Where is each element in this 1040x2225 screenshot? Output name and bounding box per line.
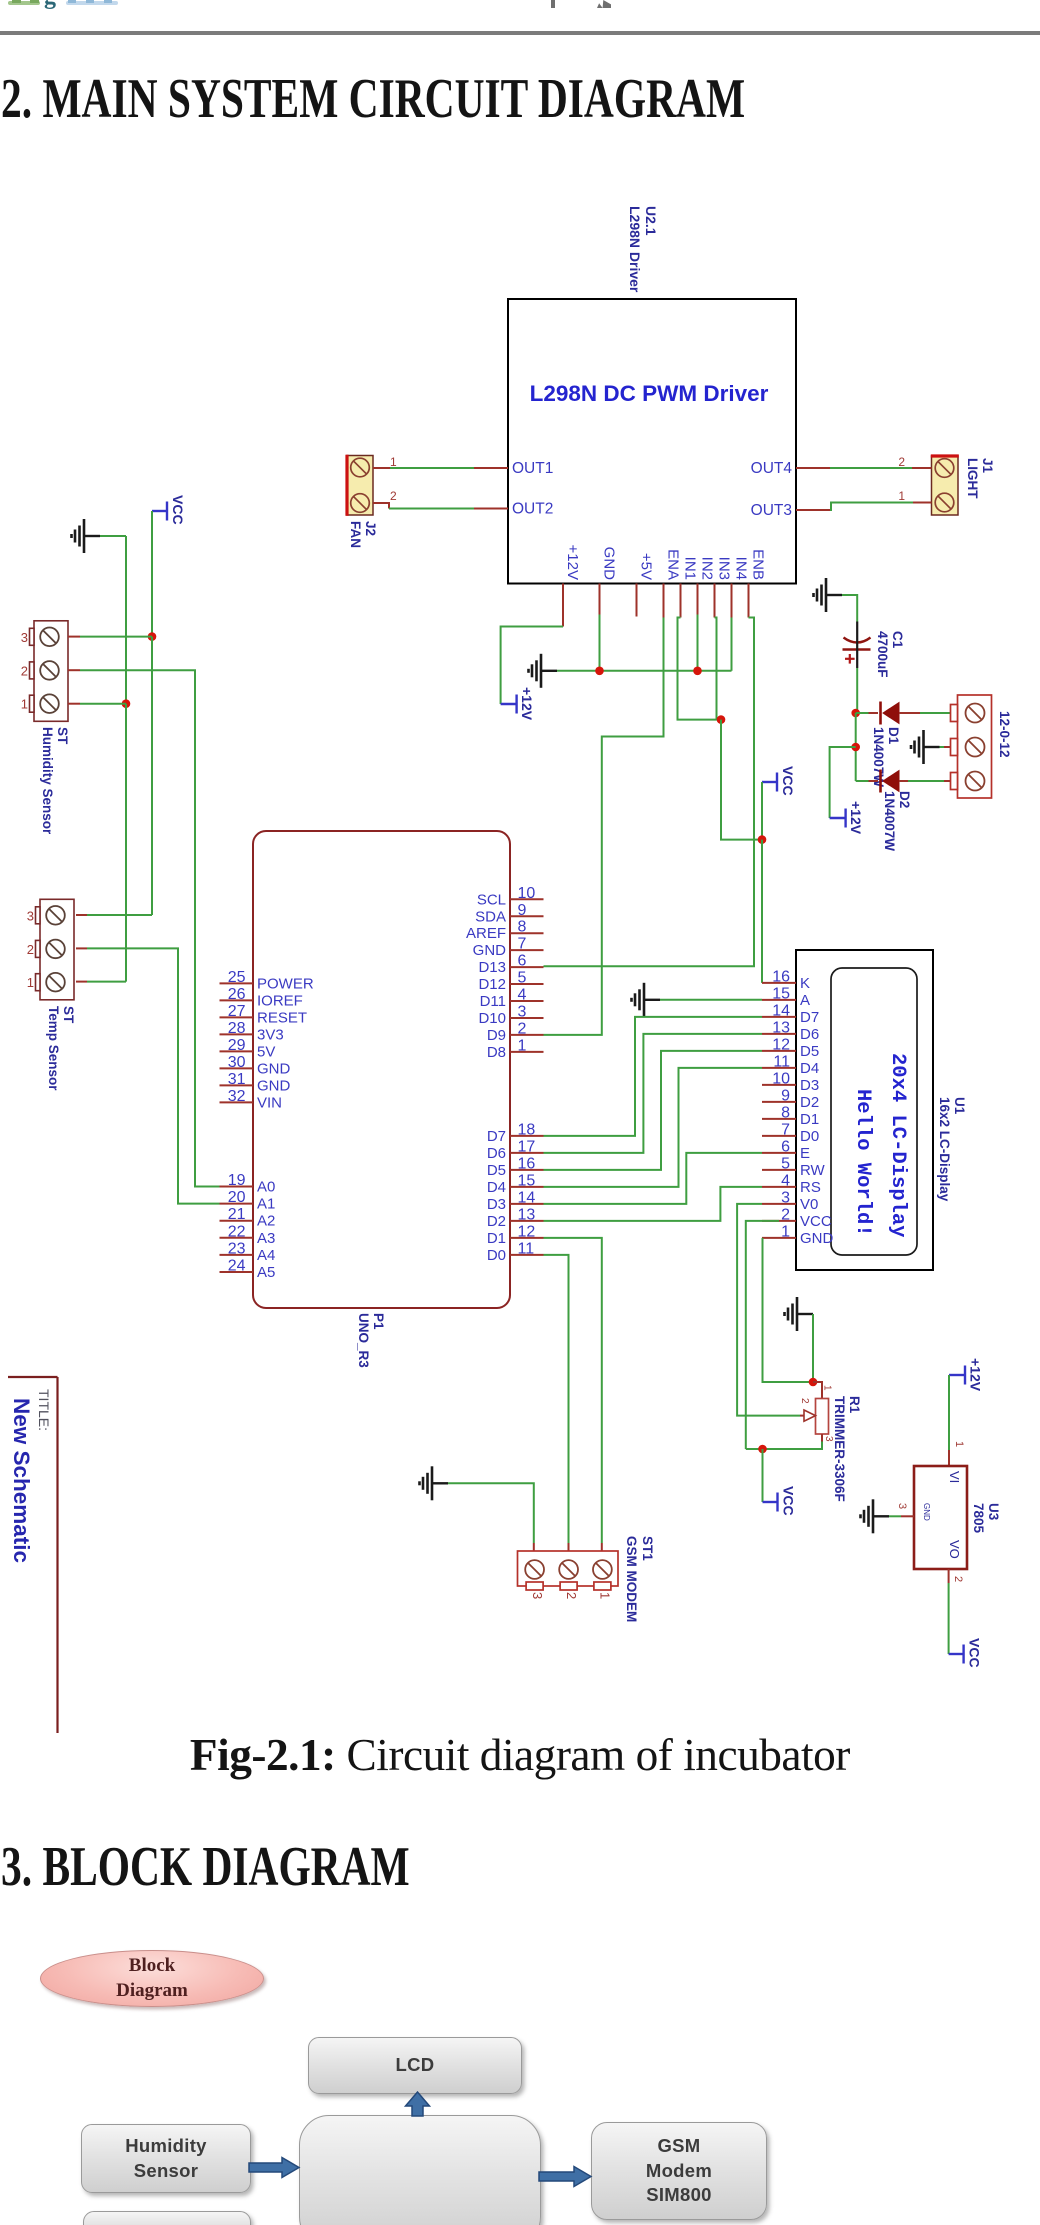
wire D2 to LCD RS	[544, 1187, 763, 1221]
circuit schematic	[0, 0, 1040, 1740]
ground at 12-0-12 center tap	[911, 730, 940, 764]
wire ground to LCD pin15 A	[660, 999, 762, 1001]
+12V power symbol near D2	[830, 809, 846, 828]
wire ground to C1	[842, 595, 857, 622]
wire D2 to 12-0-12 pin3	[899, 780, 908, 782]
junction IN1-IN3 node	[717, 715, 726, 724]
block GSM Modem SIM800	[591, 2122, 767, 2220]
junction VCC at R1	[758, 1445, 767, 1454]
pin 3 of R1	[821, 1434, 823, 1442]
junction humidity pin1	[122, 699, 131, 708]
wire D4 to LCD D4	[544, 1068, 763, 1187]
wire IN1 to VCC net	[678, 618, 722, 720]
plus sign of C1	[845, 658, 855, 660]
VCC power symbol below R1	[763, 1493, 778, 1512]
wire D0 to GSM pin2	[544, 1255, 569, 1543]
junction C1 D1	[851, 709, 860, 718]
wire ENA to D9	[544, 618, 664, 1035]
wire D3 to LCD E	[544, 1153, 763, 1204]
wire humidity pin2 to A0	[68, 669, 80, 671]
wire D1 node to D2 node	[855, 713, 857, 781]
heading 3. BLOCK DIAGRAM	[1, 1835, 410, 1899]
ground	[785, 1297, 814, 1331]
ground	[420, 1466, 449, 1500]
connector ST Humidity Sensor terminal block	[34, 621, 68, 722]
wire OUT4 to J1 pin2	[830, 467, 912, 469]
caption Fig-2.1	[8, 1728, 1032, 1781]
connector ST1 GSM MODEM terminal block	[533, 1543, 535, 1551]
op-amp U2.1 L298N DC PWM Driver module box	[508, 299, 796, 584]
wire to +12V symbol near D2	[830, 747, 856, 818]
wire U3 pin2 to VCC	[948, 1569, 950, 1583]
header logo remnant	[8, 0, 138, 11]
wire D5 to LCD D5	[544, 1051, 763, 1170]
ground	[632, 983, 661, 1017]
connector 12-0-12 transformer terminal	[958, 695, 992, 798]
diode D2 1N4007W	[856, 780, 869, 782]
block central controller	[299, 2115, 541, 2225]
wire OUT3 to J1 pin1	[830, 503, 913, 511]
heading 2. MAIN SYSTEM CIRCUIT DIAGRAM	[1, 67, 745, 131]
ground	[861, 1499, 890, 1533]
ground at driver rail	[529, 654, 558, 688]
wire temp pin2 to A1	[76, 947, 87, 949]
capacitor C1 4700uF	[856, 622, 858, 641]
wire +12V pin of U2.1 to +12V symbol	[501, 627, 563, 705]
wire ENB to D13	[544, 618, 755, 967]
title block border	[8, 1376, 58, 1378]
diode D1 1N4007W	[856, 712, 869, 714]
wire IN4 to rail	[731, 618, 733, 671]
wire junction down to VCC symbol	[762, 1449, 764, 1502]
block LCD	[308, 2037, 522, 2094]
+12V power symbol above U3	[949, 1366, 965, 1385]
connector J2 FAN terminal block	[347, 456, 373, 516]
wire GND pin of U2.1 to rail	[599, 615, 601, 671]
wire J2 pin2 to OUT2	[373, 503, 389, 509]
connector ST Temp Sensor terminal block	[40, 899, 74, 1000]
block partial bottom-left	[83, 2211, 251, 2225]
ground above C1	[814, 578, 843, 612]
wire VCC symbol to junction	[761, 782, 763, 840]
wire J2 pin1 to OUT1	[373, 467, 390, 469]
wire ground to GSM pin3	[448, 1483, 534, 1543]
wire ground to R1 junction	[812, 1314, 814, 1382]
wire D6 to LCD D6	[544, 1034, 763, 1153]
header page-number remnant	[551, 0, 555, 8]
wire C1 to D1 node	[856, 668, 858, 713]
display U1 16x2 LC-Display box	[796, 950, 933, 1270]
trimmer R1 TRIMMER-3306F	[813, 1382, 822, 1399]
junction +12V branch	[851, 743, 860, 752]
junction R1 pin1 node	[809, 1378, 818, 1387]
wire IN3 to VCC net	[715, 618, 717, 720]
wire LCD VCC to R1 pin3 rail	[746, 1221, 779, 1449]
wire IN node down to VCC junction	[721, 720, 762, 840]
microcontroller P1 UNO_R3 box	[253, 831, 510, 1308]
block diagram ellipse Block Diagram	[40, 1950, 264, 2007]
junction IN2 rail	[693, 667, 702, 676]
connector J1 LIGHT terminal block	[932, 456, 959, 515]
junction humidity pin3	[148, 632, 157, 641]
VCC power symbol near humidity sensor	[152, 502, 167, 521]
wire temp pin3 stub	[76, 914, 87, 916]
header rule	[0, 31, 1040, 35]
wire IN2 to rail	[697, 615, 699, 671]
wire D1 to 12-0-12 pin1	[899, 712, 920, 714]
wire ground down to sensors pin1 net	[100, 535, 126, 537]
junction GND rail	[595, 667, 604, 676]
block Humidity Sensor	[81, 2124, 251, 2193]
voltage regulator U3 7805	[914, 1466, 967, 1569]
ground near humidity sensor	[72, 519, 101, 553]
wire humidity pin3 stub	[68, 636, 80, 638]
wire LCD V0 to trimmer wiper	[737, 1204, 800, 1416]
+12V power symbol left	[501, 695, 517, 714]
wire VCC down to sensors pin3 net	[151, 511, 153, 637]
wire VCC junction down to LCD pin16 K	[761, 840, 763, 983]
wire D1 to GSM pin1	[544, 1238, 602, 1543]
wiper arrow of R1	[800, 1415, 805, 1417]
wire LCD GND down to ground rail	[763, 1238, 812, 1382]
junction VCC to LCD K	[758, 835, 767, 844]
wire humidity pin1 stub	[68, 703, 80, 705]
wire temp pin1 stub	[76, 981, 87, 983]
VCC power symbol near ENB	[762, 773, 777, 792]
wire D7 to LCD D7	[544, 1017, 763, 1136]
VCC power symbol below U3	[949, 1645, 964, 1664]
